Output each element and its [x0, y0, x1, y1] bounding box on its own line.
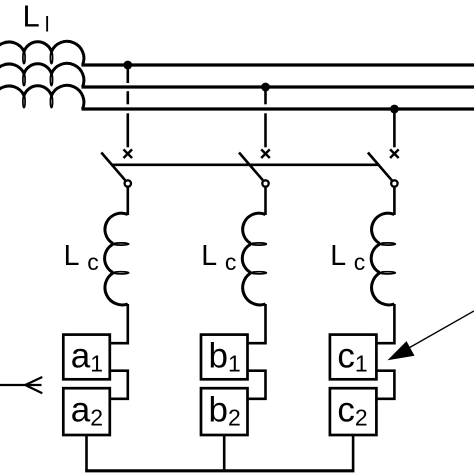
box a1: [63, 335, 110, 380]
switch blade phase b: [239, 153, 266, 184]
switch pivot phase c: [391, 180, 397, 186]
node junction dot phase b: [261, 83, 270, 92]
svg-text:L: L: [23, 0, 40, 34]
box a2: [63, 388, 110, 435]
wire switch to coil phase a: [127, 187, 130, 215]
node junction dot phase c: [390, 105, 399, 114]
wire tap drop phase b: [264, 87, 267, 147]
connector c1-c2: [376, 371, 394, 399]
wire phase line 3: [82, 107, 474, 110]
arrow pointer to c1: [400, 311, 474, 353]
arrow left measurement: [0, 377, 42, 393]
wire box a2 to bus: [85, 435, 88, 471]
wire coil to box c1: [376, 304, 395, 343]
node junction dot phase a: [123, 61, 132, 70]
box c1: [330, 335, 377, 380]
inductor Lc coil phase c: [371, 213, 395, 305]
svg-text:c: c: [87, 249, 99, 275]
box b2: [201, 388, 248, 435]
connector b1-b2: [248, 371, 266, 399]
box b1: [201, 335, 248, 380]
svg-text:L: L: [64, 240, 80, 272]
wire switch to coil phase c: [393, 187, 396, 215]
inductor Lc coil phase b: [242, 213, 266, 305]
switch pivot phase b: [262, 180, 268, 186]
wire box b2 to bus: [223, 435, 226, 471]
wire switch to coil phase b: [264, 187, 267, 215]
switch blade phase c: [368, 153, 395, 184]
wire box c2 to bus: [352, 435, 355, 471]
wire coil to box a1: [109, 304, 128, 343]
switch contact x phase a: [124, 149, 133, 158]
box c2: [330, 388, 377, 435]
switch contact x phase c: [390, 149, 399, 158]
switch contact x phase b: [261, 149, 270, 158]
svg-text:c: c: [354, 249, 366, 275]
switch linkage bar: [112, 164, 378, 167]
wire bottom bus: [85, 469, 354, 472]
wire tap drop phase a: [127, 65, 130, 147]
wire coil to box b1: [247, 304, 266, 343]
svg-text:L: L: [330, 240, 346, 272]
switch pivot phase a: [125, 180, 131, 186]
svg-text:c: c: [225, 249, 237, 275]
wire phase line 1: [82, 63, 474, 66]
svg-text:L: L: [201, 240, 217, 272]
svg-text:l: l: [45, 12, 50, 36]
inductor L_l phase-2 coil: [0, 63, 84, 87]
inductor L_l phase-3 coil: [0, 85, 84, 109]
inductor L_l phase-1 coil: [0, 41, 84, 65]
wire phase line 2: [82, 85, 474, 88]
switch blade phase a: [101, 153, 128, 184]
inductor Lc coil phase a: [105, 213, 129, 305]
connector a1-a2: [110, 371, 128, 399]
wire tap drop phase c: [393, 109, 396, 147]
